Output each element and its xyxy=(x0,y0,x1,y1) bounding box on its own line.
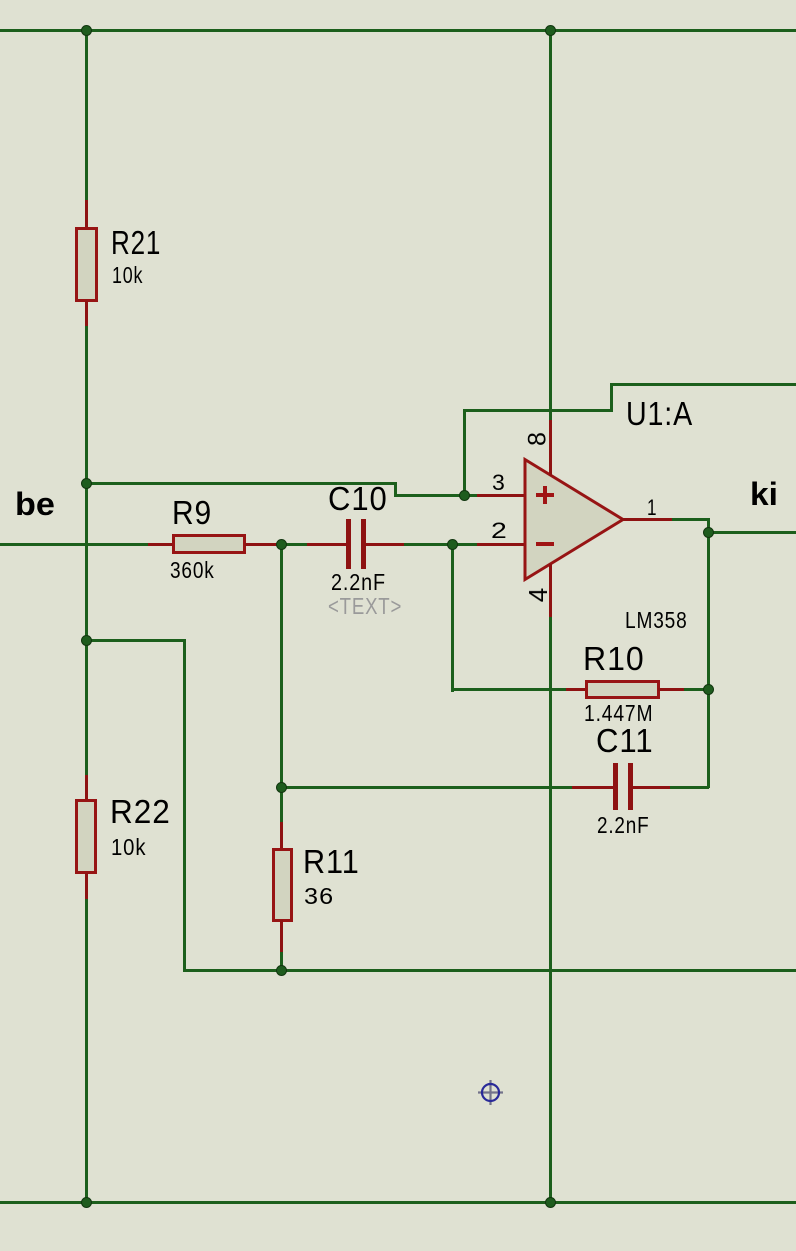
wire top-right step vertical xyxy=(610,383,613,412)
junction dot R11 bottom node xyxy=(276,965,287,976)
wire C11 row right green xyxy=(670,786,709,789)
wire pin3 branch vertical xyxy=(463,409,466,497)
resistor R21 xyxy=(85,200,88,227)
label LM358 xyxy=(625,609,688,632)
junction dot R9-C10 node xyxy=(276,539,287,550)
wire pin4 red xyxy=(549,564,552,617)
junction dot bottom rail right xyxy=(545,1197,556,1208)
wire pin4 vertical green xyxy=(549,617,552,1202)
wire branch row at 640 xyxy=(85,639,186,642)
wire left bus lower segment xyxy=(85,899,88,1202)
wire be row step vertical xyxy=(394,482,397,497)
wire bottom ground rail xyxy=(0,1201,796,1204)
wire main row left xyxy=(0,543,149,546)
node ki label xyxy=(750,478,778,510)
pin number 3 xyxy=(492,472,505,494)
wire pin8 red xyxy=(549,420,552,476)
wire R11 branch vertical from main row xyxy=(280,544,283,822)
junction dot top rail right xyxy=(545,25,556,36)
wire pin3 red lead xyxy=(477,494,525,497)
pin number 4 rotated xyxy=(525,588,551,602)
wire op-amp output red xyxy=(621,518,673,521)
wire C11 row left green xyxy=(280,786,574,789)
resistor R22 xyxy=(85,775,88,799)
junction dot be node xyxy=(81,478,92,489)
wire top power rail xyxy=(0,29,796,32)
pin number 8 rotated xyxy=(525,432,550,446)
wire be row to pin3 xyxy=(394,494,478,497)
junction dot R11 top node xyxy=(276,782,287,793)
wire branch vertical x184 xyxy=(183,639,186,972)
op-amp minus symbol xyxy=(536,542,554,546)
wire left bus middle segment xyxy=(85,326,88,775)
text placeholder TEXT xyxy=(328,595,402,618)
wire pin2 down vertical xyxy=(451,543,454,692)
wire R10 row right xyxy=(684,688,709,691)
resistor R10 xyxy=(566,688,586,691)
wire pin3 branch horizontal xyxy=(463,409,613,412)
pin number 1 xyxy=(647,497,657,519)
capacitor C11 xyxy=(572,786,614,789)
wire main row to pin2 xyxy=(404,543,478,546)
wire left bus upper segment xyxy=(85,30,88,200)
capacitor C10 xyxy=(307,543,346,546)
resistor R9 xyxy=(148,543,172,546)
wire main row between R9 and C10 xyxy=(281,543,308,546)
wire R11 bottom green xyxy=(280,952,283,970)
junction dot pin3 node xyxy=(459,490,470,501)
wire output down vertical xyxy=(707,518,710,788)
junction dot R10 right node xyxy=(703,684,714,695)
junction dot left branch node xyxy=(81,635,92,646)
wire pin8 vertical green xyxy=(549,30,552,420)
wire R10 row left xyxy=(451,688,568,691)
junction dot top rail left xyxy=(81,25,92,36)
wire top-right horizontal to edge xyxy=(610,383,796,386)
resistor R11 xyxy=(280,822,283,849)
junction dot pin2 node xyxy=(447,539,458,550)
op-amp U1 triangle xyxy=(518,452,630,588)
wire bottom long row xyxy=(183,969,796,972)
wire be row horizontal xyxy=(85,482,397,485)
node be label xyxy=(15,488,55,520)
pin number 2 xyxy=(491,520,507,542)
wire output green xyxy=(672,518,710,521)
label U1:A xyxy=(626,397,693,430)
wire pin2 red lead xyxy=(477,543,525,546)
junction dot bottom rail left xyxy=(81,1197,92,1208)
op-amp plus symbol xyxy=(536,493,554,497)
wire ki row xyxy=(707,531,796,534)
origin marker crosshair xyxy=(478,1080,503,1105)
junction dot output node xyxy=(703,527,714,538)
